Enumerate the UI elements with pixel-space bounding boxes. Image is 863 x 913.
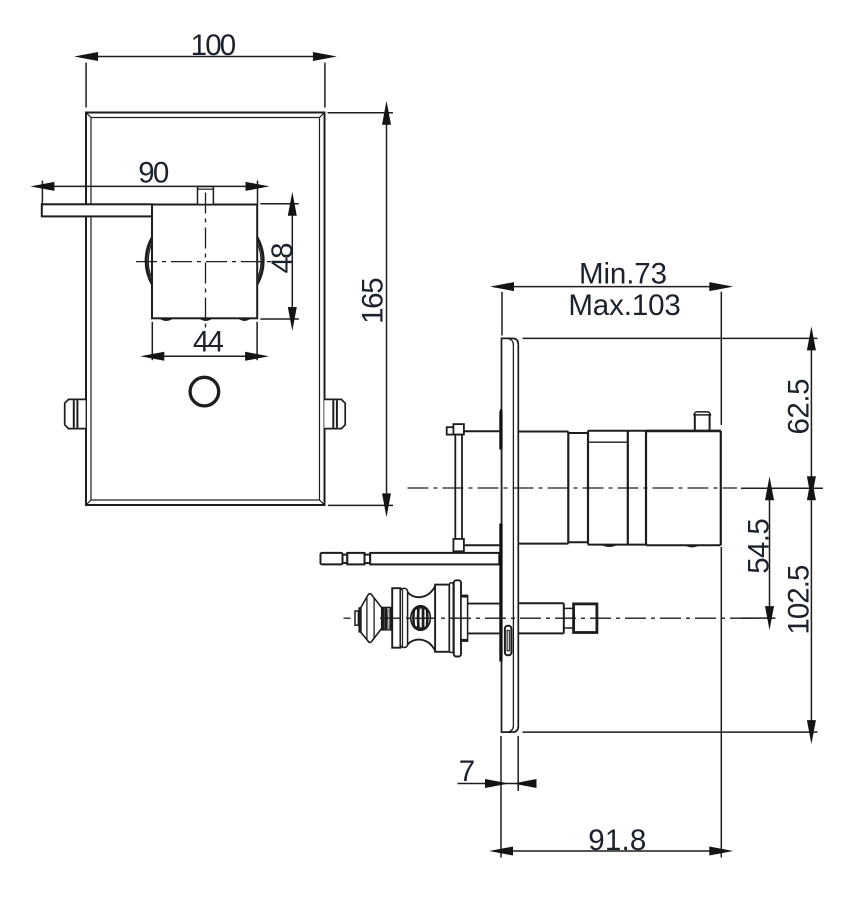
svg-text:7: 7 <box>459 755 475 788</box>
svg-text:100: 100 <box>191 29 237 62</box>
svg-text:165: 165 <box>356 277 389 324</box>
svg-text:54.5: 54.5 <box>743 518 776 574</box>
svg-text:102.5: 102.5 <box>783 565 816 635</box>
svg-text:62.5: 62.5 <box>783 379 816 435</box>
svg-text:Min.73: Min.73 <box>579 258 667 291</box>
svg-text:48: 48 <box>266 242 299 273</box>
svg-text:44: 44 <box>193 326 224 359</box>
svg-text:90: 90 <box>138 157 169 190</box>
svg-text:91.8: 91.8 <box>588 824 646 857</box>
svg-text:Max.103: Max.103 <box>568 289 681 322</box>
